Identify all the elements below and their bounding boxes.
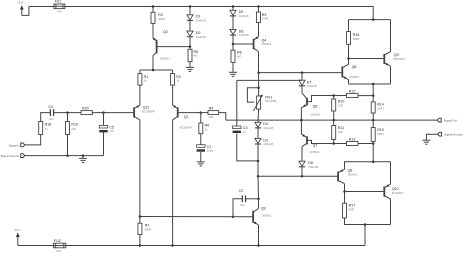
junction input ground symbol bbox=[82, 154, 85, 157]
wire R1-R2 top line bbox=[140, 69, 173, 71]
wire input terminal to R18 bbox=[25, 135, 41, 145]
wire R17 to bottom line bbox=[345, 218, 391, 225]
junction R13 right / R15 node bbox=[372, 142, 375, 145]
resistor R11 bbox=[332, 126, 344, 140]
svg-text:1N4148: 1N4148 bbox=[308, 165, 318, 169]
wire R1 to Q11 emitter bbox=[139, 85, 141, 105]
svg-text:FU1: FU1 bbox=[55, 0, 62, 4]
wire Q6/Q9 emitter line bbox=[349, 83, 391, 85]
wire D5 to D6 bbox=[232, 16, 234, 29]
svg-text:1N4148: 1N4148 bbox=[263, 126, 273, 130]
svg-text:1N4148: 1N4148 bbox=[239, 33, 249, 37]
wire top +35V rail bbox=[29, 6, 55, 8]
diode D5 bbox=[230, 10, 249, 18]
transistor Q7 bbox=[301, 134, 320, 154]
resistor R10 bbox=[332, 99, 345, 111]
fuse FU1 bbox=[54, 0, 65, 13]
junction emitter line to R12/R14 bbox=[372, 83, 375, 86]
wire C2 left lead bbox=[233, 199, 242, 217]
junction node B (string to Q3/Q8 drive) bbox=[257, 175, 260, 178]
wire R3 to Q2 emitter bbox=[152, 23, 154, 38]
junction Q5/Q7 emitters on output bbox=[300, 119, 303, 122]
svg-text:20k: 20k bbox=[209, 115, 214, 119]
svg-text:C4: C4 bbox=[48, 105, 53, 109]
transistor Q10 bbox=[384, 184, 404, 199]
svg-text:C2: C2 bbox=[239, 189, 244, 193]
wire D4 to D3 bbox=[257, 128, 259, 138]
transistor Q8 bbox=[338, 169, 358, 184]
svg-text:+35V: +35V bbox=[17, 0, 24, 4]
svg-text:Q7: Q7 bbox=[313, 144, 318, 148]
wire R15 top lead bbox=[372, 120, 374, 127]
junction rail R3 bbox=[152, 5, 155, 8]
wire R10 top lead bbox=[333, 96, 335, 100]
svg-text:2N5551: 2N5551 bbox=[310, 113, 320, 117]
wire R20 to Q11 base bbox=[92, 112, 134, 114]
junction top-right rail node bbox=[372, 18, 375, 21]
wire C1 to ground bbox=[200, 152, 202, 162]
wire bottom line to rail bbox=[364, 225, 366, 246]
trimmer RV1 bbox=[253, 95, 276, 111]
diode D2 bbox=[187, 31, 206, 39]
svg-text:MJ15004: MJ15004 bbox=[392, 191, 404, 195]
wire to R16 bbox=[348, 20, 350, 32]
wire Q7 base bbox=[307, 140, 347, 143]
junction rail R9 bbox=[257, 5, 260, 8]
transistor Q11 bbox=[134, 105, 155, 120]
resistor R13 bbox=[347, 137, 359, 145]
wire node B down to Q3 bbox=[257, 176, 260, 208]
resistor R17 bbox=[343, 203, 356, 218]
wire RV1 to D4 bbox=[257, 109, 260, 122]
resistor R6 bbox=[199, 123, 209, 134]
junction Q3 emitter on -35V rail bbox=[257, 244, 260, 247]
wire signal ground right bbox=[426, 134, 437, 140]
wire R13 right lead bbox=[358, 143, 373, 145]
resistor R16 bbox=[347, 32, 360, 45]
wire Q8 emitter up bbox=[345, 162, 391, 170]
junction rail D5 bbox=[232, 5, 235, 8]
transistor Q1 bbox=[173, 105, 192, 129]
capacitor C4 bbox=[48, 105, 54, 121]
wire D6 to R8 bbox=[232, 36, 234, 51]
svg-text:1N4148: 1N4148 bbox=[239, 14, 249, 18]
svg-text:-35V: -35V bbox=[14, 228, 20, 232]
junction rail D1 bbox=[189, 5, 192, 8]
junction R11 bottom bbox=[332, 142, 335, 145]
wire signal ground line bbox=[25, 155, 104, 157]
wire C4 to R20 bbox=[54, 112, 81, 114]
ground below R5 bbox=[186, 67, 194, 71]
junction R12 right / R14 top bbox=[372, 94, 375, 97]
svg-text:R4: R4 bbox=[209, 106, 214, 110]
svg-text:100u: 100u bbox=[207, 149, 214, 153]
junction Q10 base node bbox=[343, 190, 346, 193]
junction R19 top bbox=[66, 111, 69, 114]
wire Q6 emitter down bbox=[348, 80, 350, 84]
wire Q7 emitter to output line bbox=[300, 120, 302, 134]
power +35V symbol bbox=[17, 0, 24, 15]
wire R11 top lead bbox=[333, 120, 335, 125]
svg-text:Signal Ground: Signal Ground bbox=[1, 154, 20, 158]
wire R11 bottom lead bbox=[333, 140, 335, 144]
wire Q10 emitter up bbox=[390, 162, 392, 185]
svg-text:Signal Out: Signal Out bbox=[444, 118, 458, 122]
wire Q2 base bbox=[157, 46, 190, 48]
wire R9 to Q4 emitter bbox=[258, 23, 260, 37]
wire Q1 collector down to -35V rail bbox=[172, 120, 174, 246]
junction C2 right / Q3 collector bbox=[257, 198, 260, 201]
resistor R15 bbox=[371, 128, 384, 142]
svg-text:T4A: T4A bbox=[57, 9, 62, 13]
svg-text:Q1: Q1 bbox=[184, 115, 189, 119]
wire Q11 collector down bbox=[139, 120, 141, 217]
junction D7 on drive line bbox=[301, 71, 304, 74]
wire R19 top lead bbox=[67, 113, 69, 122]
wire D7 bottom to Q5 collector bbox=[301, 86, 303, 93]
wire drive line to Q6 base bbox=[259, 72, 342, 74]
svg-text:2N5401: 2N5401 bbox=[310, 150, 320, 154]
junction R14/R15 on output bbox=[372, 119, 375, 122]
wire C3 top line bbox=[237, 79, 302, 81]
svg-text:Q6: Q6 bbox=[352, 65, 357, 69]
svg-text:330R: 330R bbox=[158, 17, 165, 21]
wire D2 to R5 bbox=[189, 37, 191, 49]
wire +35V to top rail bbox=[22, 7, 29, 16]
wire -35V rail left bbox=[18, 245, 54, 247]
wire emitter line down to R12/R14 node bbox=[372, 84, 374, 102]
terminal Signal In bbox=[21, 143, 25, 147]
wire Q5 emitter to output line bbox=[300, 108, 302, 120]
junction Q2 base / D2-R5 bbox=[189, 45, 192, 48]
wire R7 to -35V rail bbox=[139, 235, 141, 246]
resistor R8 bbox=[231, 50, 242, 62]
wire Q7 collector to D8 bbox=[301, 147, 303, 162]
svg-text:4n7: 4n7 bbox=[109, 129, 114, 133]
junction D8 on lower drive line bbox=[301, 175, 304, 178]
wire Q9 collector bbox=[390, 20, 392, 52]
diode D3 bbox=[255, 138, 274, 146]
terminal Signal Ground left bbox=[21, 154, 25, 158]
resistor R1 bbox=[138, 74, 148, 86]
wire rail to D1 bbox=[189, 7, 191, 15]
wire R2 to Q1 emitter bbox=[172, 85, 174, 105]
wire R5 to ground bbox=[189, 62, 191, 68]
transistor Q5 bbox=[301, 93, 320, 117]
svg-text:Q3: Q3 bbox=[261, 207, 266, 211]
resistor R12 bbox=[347, 89, 359, 97]
junction C3 return on bias string bbox=[257, 160, 260, 163]
svg-text:4k7: 4k7 bbox=[237, 54, 242, 58]
terminal Signal Out bbox=[437, 118, 441, 122]
wire R14 to output line bbox=[372, 113, 374, 120]
svg-text:22k: 22k bbox=[71, 127, 76, 131]
wire R16 to Q6 collector bbox=[348, 44, 350, 64]
transistor Q3 bbox=[253, 207, 272, 225]
junction RV1 wiper loop bbox=[257, 87, 260, 90]
junction bottom line to -35V rail bbox=[364, 223, 367, 226]
wire C5 bottom lead bbox=[103, 132, 105, 155]
svg-text:Signal Ground: Signal Ground bbox=[444, 133, 463, 137]
svg-text:680R: 680R bbox=[353, 37, 360, 41]
wire RV1 wiper loop bbox=[247, 88, 258, 102]
wire Q1 base to feedback node bbox=[178, 112, 201, 114]
wire R15 down to lower emitter line bbox=[372, 142, 374, 162]
svg-text:Signal In: Signal In bbox=[9, 143, 21, 147]
ground below R8 bbox=[229, 72, 237, 76]
wire C5 top lead bbox=[103, 113, 105, 126]
svg-text:BC556AP: BC556AP bbox=[142, 110, 154, 114]
junction R19 bottom bbox=[66, 154, 69, 157]
junction R10/R11 on output bbox=[332, 119, 335, 122]
junction node A (Q4 collector, bias string) bbox=[257, 71, 260, 74]
wire ground stub bbox=[82, 156, 84, 159]
svg-text:FU2: FU2 bbox=[54, 239, 61, 243]
resistor R3 bbox=[151, 12, 165, 23]
svg-text:BC556AP: BC556AP bbox=[180, 125, 192, 129]
wire -35V rail bbox=[66, 245, 365, 247]
junction Q9 base node bbox=[347, 57, 350, 60]
resistor R19 bbox=[66, 122, 78, 135]
wire Q9 base bbox=[349, 58, 384, 60]
diode D7 bbox=[299, 80, 317, 88]
wire rail to R3 bbox=[152, 7, 154, 13]
wire R12 right lead bbox=[358, 95, 373, 97]
svg-text:1N4148: 1N4148 bbox=[307, 84, 317, 88]
wire R10 to output line bbox=[333, 111, 335, 120]
wire rail to D5 bbox=[232, 7, 234, 11]
wire Q3 emitter to -35V rail bbox=[258, 225, 260, 246]
wire R4 to output line bbox=[219, 113, 226, 121]
wire Q10 collector down bbox=[390, 199, 392, 225]
wire R2 top lead bbox=[172, 70, 174, 74]
svg-text:2N5401: 2N5401 bbox=[262, 42, 272, 46]
resistor R5 bbox=[188, 49, 198, 61]
capacitor C2 bbox=[239, 189, 246, 207]
resistor R4 bbox=[208, 106, 219, 119]
svg-text:2N5551: 2N5551 bbox=[350, 75, 360, 79]
junction C2 left branch bbox=[232, 216, 235, 219]
svg-text:680R: 680R bbox=[145, 227, 152, 231]
svg-text:56R: 56R bbox=[349, 207, 354, 211]
svg-text:T4A: T4A bbox=[56, 249, 61, 253]
svg-text:1N4148: 1N4148 bbox=[196, 18, 206, 22]
fuse FU2 bbox=[54, 239, 66, 253]
power -35V symbol bbox=[14, 228, 20, 246]
diode D4 bbox=[255, 122, 274, 130]
svg-text:MJ15003: MJ15003 bbox=[393, 57, 405, 61]
junction Q11 collector / R7 bbox=[139, 215, 142, 218]
capacitor C1 bbox=[197, 145, 214, 153]
junction R7 on -35V rail bbox=[139, 244, 142, 247]
wire D1 to D2 bbox=[189, 21, 191, 31]
junction Q1 collector on -35V rail bbox=[171, 244, 174, 247]
wire D8 to lower drive line bbox=[301, 167, 303, 176]
wire rail top-right branch bbox=[349, 19, 391, 21]
resistor R14 bbox=[371, 102, 384, 113]
svg-text:10p: 10p bbox=[240, 203, 245, 207]
svg-text:2N5401: 2N5401 bbox=[348, 172, 358, 176]
svg-text:0R47: 0R47 bbox=[377, 132, 384, 136]
svg-text:Q2: Q2 bbox=[163, 30, 168, 34]
wire R6 to C1 bbox=[200, 134, 202, 145]
diode D8 bbox=[299, 161, 319, 169]
wire Q10 base bbox=[345, 191, 384, 193]
svg-text:R13: R13 bbox=[349, 137, 356, 141]
wire R8 to ground bbox=[232, 62, 234, 72]
svg-text:502-PRE: 502-PRE bbox=[265, 99, 276, 103]
wire C3 bottom lead bbox=[237, 134, 258, 161]
wire Q8 collector down to R17 bbox=[344, 184, 346, 204]
transistor Q9 bbox=[384, 52, 405, 67]
resistor R7 bbox=[138, 223, 151, 234]
wire output node line bbox=[226, 119, 437, 121]
transistor Q2 bbox=[153, 30, 170, 61]
diode D6 bbox=[230, 29, 249, 37]
svg-text:0R47: 0R47 bbox=[377, 106, 384, 110]
wire Q5 base bbox=[307, 96, 347, 102]
ground below C1 bbox=[197, 162, 205, 166]
svg-text:4k7: 4k7 bbox=[194, 54, 199, 58]
wire C3 top lead bbox=[236, 80, 238, 126]
wire D3 down to lower drive line bbox=[258, 145, 337, 177]
wire top rail after FU1 bbox=[65, 7, 374, 20]
wire R1 top lead bbox=[139, 70, 141, 74]
wire D7 top lead bbox=[301, 73, 303, 81]
capacitor C3 bbox=[233, 126, 248, 134]
capacitor C5 bbox=[99, 125, 114, 133]
junction C5 top bbox=[102, 111, 105, 114]
diode D1 bbox=[187, 15, 206, 23]
wire rail to R9 bbox=[258, 7, 260, 13]
wire feedback node to R4 bbox=[201, 112, 208, 114]
terminal Signal Ground right bbox=[438, 132, 442, 136]
resistor R2 bbox=[171, 74, 181, 86]
transistor Q6 bbox=[342, 64, 359, 79]
svg-text:100R: 100R bbox=[262, 17, 269, 21]
svg-text:R20: R20 bbox=[82, 106, 89, 110]
wire Q3 base line bbox=[140, 216, 252, 218]
resistor R18 bbox=[39, 122, 51, 135]
wire Q2 collector down bbox=[152, 56, 154, 71]
wire Q4 collector down bbox=[258, 52, 260, 73]
junction lower emitter line bbox=[372, 161, 375, 164]
wire R18 top to C4 bbox=[41, 113, 51, 122]
svg-text:10R: 10R bbox=[338, 103, 343, 107]
wire R7 top lead bbox=[139, 217, 141, 224]
svg-text:1N4148: 1N4148 bbox=[263, 142, 273, 146]
junction Q2 collector to LTP bbox=[152, 69, 155, 72]
wire R6 top lead bbox=[200, 113, 202, 123]
junction Q4 base / D6-R8 bbox=[232, 43, 235, 46]
svg-text:1N4148: 1N4148 bbox=[196, 35, 206, 39]
ground right side bbox=[422, 140, 430, 144]
junction R10 top bbox=[332, 94, 335, 97]
wire Q4 base bbox=[233, 43, 254, 45]
junction feedback node R4/R6 bbox=[200, 111, 203, 114]
svg-text:R12: R12 bbox=[349, 89, 356, 93]
ground input section bbox=[79, 158, 87, 162]
wire C2 right lead bbox=[246, 198, 259, 200]
svg-text:2N5401: 2N5401 bbox=[160, 57, 170, 61]
svg-text:10R: 10R bbox=[338, 130, 343, 134]
svg-text:2N5551: 2N5551 bbox=[261, 214, 271, 218]
resistor R20 bbox=[81, 106, 92, 114]
svg-text:2u2: 2u2 bbox=[49, 117, 54, 121]
svg-text:Q5: Q5 bbox=[313, 105, 318, 109]
wire node A to RV1 bbox=[258, 73, 260, 96]
wire R19 to signal ground line bbox=[67, 135, 69, 156]
wire Q9 emitter down bbox=[390, 66, 392, 84]
svg-text:1n: 1n bbox=[243, 130, 247, 134]
resistor R9 bbox=[257, 12, 269, 23]
transistor Q4 bbox=[254, 37, 272, 52]
